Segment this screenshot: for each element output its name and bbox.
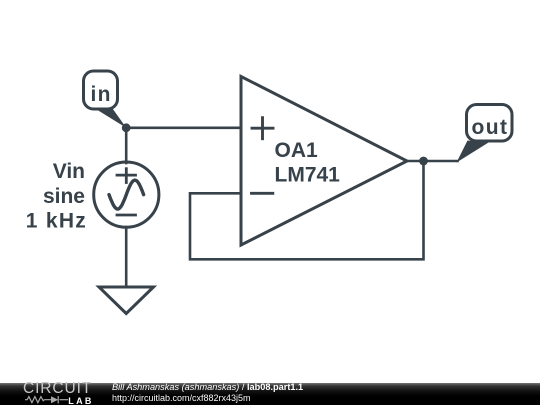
wire: voltage source bottom to ground <box>125 227 128 287</box>
svg-text:in: in <box>91 83 111 106</box>
voltage source Vin (sine) <box>94 162 159 227</box>
op-amp - input pin mark <box>252 192 273 195</box>
wire: node A down to voltage source top <box>125 128 128 163</box>
svg-text:Vin: Vin <box>53 160 85 183</box>
CircuitLab logo wordmark <box>23 381 92 397</box>
svg-text:out: out <box>472 116 508 139</box>
footer attribution text <box>112 383 303 392</box>
footer bar <box>0 383 540 405</box>
svg-text:sine: sine <box>43 185 85 208</box>
wire: feedback from output node to inverting input <box>190 161 424 259</box>
plus polarity mark <box>117 174 136 177</box>
sine waveform <box>109 180 144 209</box>
wire: node A to op-amp noninverting input <box>126 127 241 130</box>
flag "in" <box>84 71 127 128</box>
minus polarity mark <box>117 214 136 217</box>
value label: Vin sine 1 kHz <box>26 160 86 233</box>
svg-text:1 kHz: 1 kHz <box>26 210 86 233</box>
node A (junction of in flag, source, op-amp + input) <box>122 123 131 132</box>
ground <box>99 287 154 314</box>
svg-text:LM741: LM741 <box>275 164 341 187</box>
svg-text:OA1: OA1 <box>275 139 319 162</box>
wire: op-amp output to out flag <box>407 160 458 163</box>
node B (output junction) <box>419 157 428 166</box>
CircuitLab logo schematic squiggle (resistor + diode) <box>0 383 120 405</box>
op-amp + input pin mark <box>252 118 273 139</box>
flag "out" <box>457 105 513 163</box>
label OA1 LM741 <box>275 139 341 187</box>
op-amp OA1 triangle body <box>241 77 407 246</box>
